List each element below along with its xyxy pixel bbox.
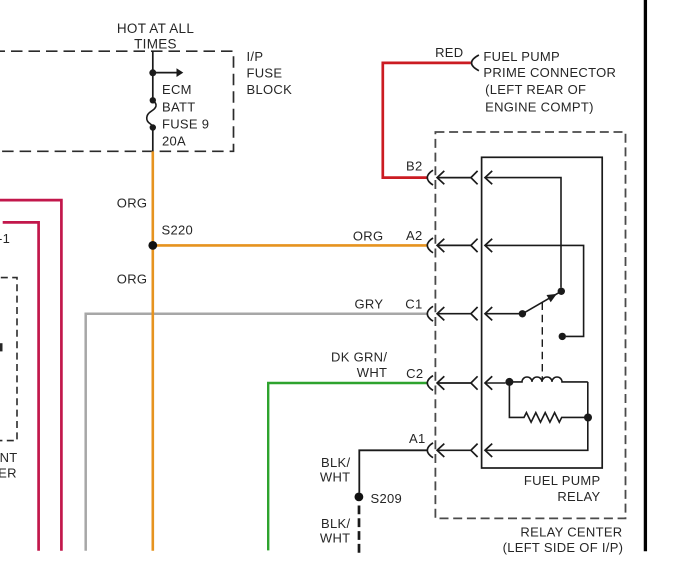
svg-text:ER: ER xyxy=(0,466,17,481)
svg-text:C2: C2 xyxy=(406,366,423,381)
svg-text:FUSE: FUSE xyxy=(247,65,283,80)
svg-text:NT: NT xyxy=(0,450,18,465)
relay coil xyxy=(509,377,587,382)
svg-text:DK GRN/: DK GRN/ xyxy=(331,349,387,364)
page edge line (right) xyxy=(644,0,647,551)
wire BLK/WHT dashed continuation xyxy=(358,506,361,554)
svg-text:TIMES: TIMES xyxy=(134,37,177,52)
svg-text:(LEFT REAR OF: (LEFT REAR OF xyxy=(485,82,586,97)
svg-text:GRY: GRY xyxy=(354,296,383,311)
svg-text:BATT: BATT xyxy=(162,99,195,114)
svg-text:ORG: ORG xyxy=(117,196,148,211)
svg-text:(LEFT SIDE OF I/P): (LEFT SIDE OF I/P) xyxy=(503,540,624,555)
wire A1 to coil/resistor node xyxy=(485,420,588,450)
svg-text:ORG: ORG xyxy=(117,272,148,287)
svg-text:BLK/: BLK/ xyxy=(321,455,350,470)
wire DK GRN/WHT C2 xyxy=(268,383,427,550)
connector: fuel pump prime connector xyxy=(472,55,479,71)
relay center box (dashed) xyxy=(435,132,625,518)
svg-text:ECM: ECM xyxy=(162,82,192,97)
svg-text:RELAY CENTER: RELAY CENTER xyxy=(520,524,622,539)
node with arrow tap xyxy=(149,69,156,76)
svg-text:20A: 20A xyxy=(162,134,186,149)
wire C2 to coil xyxy=(485,382,506,384)
svg-text:WHT: WHT xyxy=(320,469,351,484)
wire coil right side down xyxy=(587,382,589,418)
svg-text:ENGINE COMPT): ENGINE COMPT) xyxy=(485,99,594,114)
component box at left edge (dashed, cut off) xyxy=(0,278,17,441)
wire crimson inner (left) xyxy=(3,222,39,550)
svg-text:FUEL PUMP: FUEL PUMP xyxy=(483,49,560,64)
wire B2 to switch contact xyxy=(485,178,561,288)
wire C1 to switch common xyxy=(485,313,519,315)
cut text fragment inside left box xyxy=(0,343,3,351)
svg-text:RED: RED xyxy=(435,45,463,60)
svg-text:FUEL PUMP: FUEL PUMP xyxy=(524,473,601,488)
svg-text:PRIME CONNECTOR: PRIME CONNECTOR xyxy=(483,65,616,80)
pin C2 connector xyxy=(427,376,492,391)
node S220 xyxy=(148,241,157,250)
svg-text:S209: S209 xyxy=(371,491,403,506)
svg-text:BLOCK: BLOCK xyxy=(247,82,293,97)
node S209 xyxy=(355,493,364,502)
svg-text:-1: -1 xyxy=(0,231,10,246)
svg-text:HOT AT ALL: HOT AT ALL xyxy=(117,21,194,36)
pin C1 connector xyxy=(427,306,492,321)
mechanical linkage (dashed) xyxy=(541,303,543,382)
pin A2 connector xyxy=(427,238,492,253)
wire crimson outer (left) xyxy=(0,200,61,551)
svg-text:A1: A1 xyxy=(409,431,426,446)
svg-text:FUSE 9: FUSE 9 xyxy=(162,117,209,132)
pin B2 connector xyxy=(427,170,492,185)
wire A2 to lower contact xyxy=(485,245,584,336)
svg-text:S220: S220 xyxy=(162,223,194,238)
svg-text:BLK/: BLK/ xyxy=(321,516,350,531)
wire RED from prime connector xyxy=(383,63,471,178)
resistor (parallel with coil) xyxy=(509,382,588,422)
svg-text:C1: C1 xyxy=(405,296,422,311)
svg-text:ORG: ORG xyxy=(353,228,384,243)
wire GRY C1 xyxy=(86,314,428,551)
pin A1 connector xyxy=(427,443,492,458)
wire ORG vertical xyxy=(152,151,155,550)
I/P fuse block box (dashed) xyxy=(0,51,234,151)
svg-text:WHT: WHT xyxy=(357,365,388,380)
svg-text:RELAY: RELAY xyxy=(557,489,600,504)
wire BLK/WHT to A1 xyxy=(359,450,427,493)
fuse ECM BATT FUSE 9 20A xyxy=(150,97,156,103)
svg-text:I/P: I/P xyxy=(247,49,264,64)
relay switch xyxy=(522,292,559,314)
wire ORG horizontal to A2 xyxy=(153,244,427,247)
svg-text:B2: B2 xyxy=(406,158,423,173)
fuel pump relay box (solid) xyxy=(482,157,603,468)
svg-text:WHT: WHT xyxy=(320,530,351,545)
svg-text:A2: A2 xyxy=(406,228,423,243)
wire from top into fuse xyxy=(152,51,154,100)
